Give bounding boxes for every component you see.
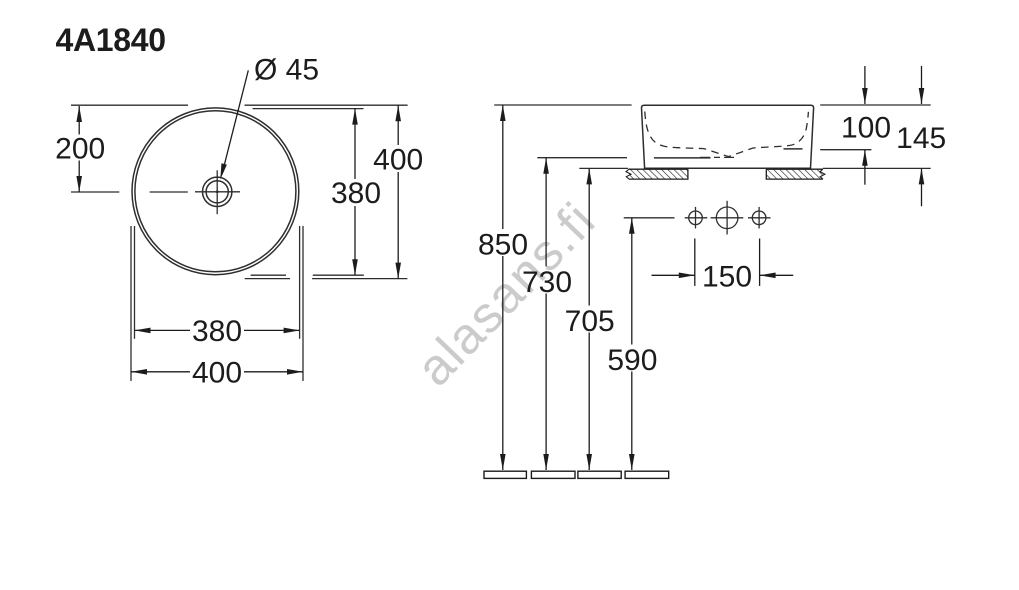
dimension 100	[864, 66, 866, 185]
svg-text:400: 400	[373, 143, 423, 176]
dimension 145	[921, 66, 923, 206]
faucet hole center large	[716, 207, 738, 229]
tap hole horizontal centerline	[195, 191, 240, 193]
svg-text:200: 200	[55, 133, 105, 166]
circle horizontal centerline left outer segment	[71, 191, 119, 193]
bottom tangent line right (380 ref)	[313, 274, 364, 276]
svg-text:Ø 45: Ø 45	[254, 54, 319, 87]
tap hole outer circle	[203, 177, 232, 206]
extension line below circle right inner (380)	[299, 226, 301, 339]
bottom tangent line left short (380 ref)	[251, 274, 286, 276]
svg-text:145: 145	[896, 122, 946, 155]
top tangent line left segment	[71, 104, 188, 106]
bottom tangent line right (400 ref)	[312, 278, 407, 280]
basin top extension line right	[820, 104, 931, 106]
counter hatched strip right	[766, 169, 825, 179]
basin inner rim circle (top view)	[135, 111, 296, 272]
basin interior bottom line left	[654, 157, 711, 159]
extension line below circle right outer (400)	[302, 226, 304, 381]
100 level extension line right	[820, 149, 871, 151]
counter top line right of basin	[823, 167, 931, 169]
basin profile outline	[642, 105, 814, 168]
faucet hole left small	[689, 211, 703, 225]
svg-text:150: 150	[702, 260, 752, 293]
counter top line left of basin	[579, 167, 628, 169]
svg-text:400: 400	[192, 356, 242, 389]
faucet hole right small	[752, 211, 766, 225]
basin interior shelf line right	[784, 148, 803, 150]
svg-text:100: 100	[841, 111, 891, 144]
730 level extension line	[537, 157, 627, 159]
basin top extension line left	[494, 104, 631, 106]
extension line below circle left outer (400)	[130, 226, 132, 381]
inner bowl dashed curve	[645, 112, 809, 157]
dimension 200	[78, 106, 80, 192]
dimension 730	[545, 158, 547, 470]
dimension 705	[588, 168, 590, 470]
dimension 380 vertical (left view)	[354, 109, 356, 276]
dimension 850	[502, 105, 504, 470]
extension line below circle left inner (380)	[134, 226, 136, 339]
counter hatched strip left	[626, 169, 688, 179]
svg-text:705: 705	[565, 305, 615, 338]
top tangent line right short segment (380 ref)	[253, 108, 364, 110]
top tangent line right long segment (400 ref)	[245, 104, 408, 106]
dimension 400 vertical (left view)	[397, 105, 399, 278]
svg-text:590: 590	[607, 344, 657, 377]
tap hole vertical centerline	[216, 170, 218, 214]
dimension 150	[652, 239, 794, 286]
svg-text:380: 380	[331, 177, 381, 210]
circle horizontal centerline inner segment	[150, 191, 188, 193]
leader line for tap hole diameter	[222, 70, 248, 174]
basin outer rim circle (top view)	[132, 108, 299, 275]
floor strip (4 tiles)	[484, 471, 669, 478]
faucet holes centerline	[624, 217, 675, 219]
svg-text:730: 730	[522, 266, 572, 299]
svg-text:380: 380	[192, 315, 242, 348]
dimension 380 horizontal (left view)	[135, 329, 300, 331]
svg-text:4A1840: 4A1840	[56, 22, 166, 58]
svg-text:850: 850	[478, 229, 528, 262]
bottom tangent line left (400 ref)	[245, 278, 290, 280]
dimension 400 horizontal (left view)	[131, 371, 303, 373]
drain dash-dot line	[700, 156, 737, 158]
tap hole inner circle	[206, 181, 228, 203]
dimension 590	[631, 218, 633, 470]
tap hole center dot	[216, 190, 219, 193]
